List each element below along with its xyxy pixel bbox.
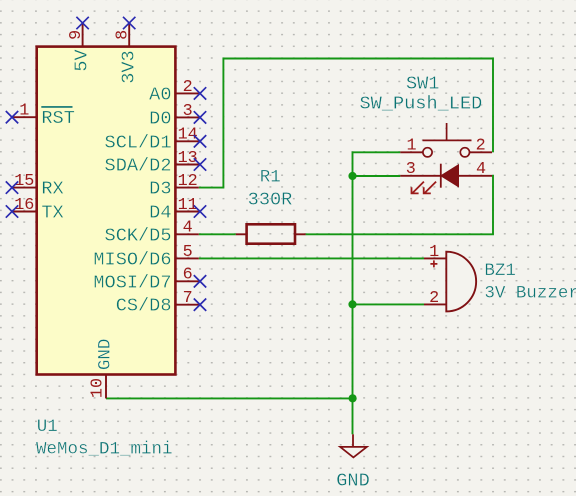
pin 14 lead [175,140,200,142]
pin 2 A0 (right side) [149,78,206,106]
pin 13 lead [175,164,200,166]
pin 6 MOSI/D7 (right side) [93,266,206,294]
svg-text:D3: D3 [149,179,171,200]
wire vertical bus from LED pin3 row down to buzzer pin2 row [352,176,354,304]
svg-text:5V: 5V [72,49,93,72]
pin 9 5V (top side) [67,17,93,72]
svg-text:9: 9 [67,30,86,40]
svg-text:6: 6 [183,266,193,285]
wire vertical bus buzzer row down to GND row [352,304,354,398]
svg-text:SW1: SW1 [406,73,439,94]
svg-text:CS/D8: CS/D8 [116,296,172,317]
svg-text:D4: D4 [149,203,171,224]
svg-text:2: 2 [183,78,193,97]
svg-text:MOSI/D7: MOSI/D7 [93,272,171,293]
ground symbol [340,434,367,457]
pin 15 RX (left side) [6,172,64,200]
IC U1 WeMos_D1_mini body [37,47,176,375]
wire junction B to buzzer pin 2 [353,303,425,305]
no-connect X on pin 1 [6,111,18,123]
svg-text:2: 2 [429,289,439,308]
no-connect X on pin 7 [194,299,206,311]
svg-text:GND: GND [96,339,116,371]
pin 3 D0 (right side) [149,102,206,130]
pin 15 lead [12,187,37,189]
wire U1 GND pin 10 to junction C [106,397,353,399]
svg-text:1: 1 [429,243,439,262]
svg-text:3V3: 3V3 [118,50,139,83]
svg-text:D0: D0 [149,108,171,129]
junction A at (352.5,176) [348,172,356,180]
pin 4 SCK/D5 (right side) [105,219,199,247]
svg-text:4: 4 [183,219,193,238]
no-connect X on pin 2 [194,87,206,99]
pin 3 lead [175,116,200,118]
wire junction A to LED pin 3 [353,175,401,177]
svg-text:WeMos_D1_mini: WeMos_D1_mini [36,440,173,460]
pin 5 lead [175,257,198,259]
wire net /D3: pin D3 right, up, across top, down to SW1 pin 2 [199,59,493,188]
pin 6 lead [175,280,200,282]
wire SW1 pin1 to vertical bus at x=352.5 [353,152,401,176]
svg-text:RX: RX [41,179,63,200]
pin 5 MISO/D6 (right side) [93,243,198,271]
svg-text:A0: A0 [149,84,171,105]
pin 2 lead [175,92,200,94]
no-connect X on pin 14 [194,135,206,147]
no-connect X on pin 11 [194,205,206,217]
wire SCK/D5 to R1 left lead [199,233,236,235]
pin 4 lead [175,233,198,235]
svg-text:SCK/D5: SCK/D5 [105,225,172,246]
pin 7 CS/D8 (right side) [116,289,206,317]
svg-text:10: 10 [88,378,107,398]
svg-text:7: 7 [183,289,193,308]
svg-text:BZ1: BZ1 [484,261,516,281]
svg-text:8: 8 [114,30,133,40]
RST overbar [41,106,72,108]
buzzer plus mark [430,260,437,267]
pin 13 SDA/D2 (right side) [105,149,207,177]
pin 11 D4 (right side) [149,196,206,224]
no-connect X on pin 15 [6,181,18,193]
switch SW1 contact circles and actuator [400,123,492,157]
no-connect X on pin 16 [6,205,18,217]
pin 12 D3 (right side) [149,172,199,200]
buzzer BZ1 body [424,252,476,312]
pin 12 lead [175,187,198,189]
svg-text:2: 2 [476,137,486,156]
pin 16 TX (left side) [6,196,64,224]
svg-text:5: 5 [183,243,193,262]
wire junction C down to GND symbol [352,398,354,434]
svg-text:R1: R1 [260,167,281,187]
svg-text:RST: RST [41,108,74,129]
pin 14 SCL/D1 (right side) [105,126,207,154]
svg-text:TX: TX [41,203,63,224]
svg-text:12: 12 [178,172,198,191]
LED emission arrows [412,182,437,194]
no-connect X on pin 13 [194,158,206,170]
svg-text:1: 1 [407,137,417,156]
svg-text:3: 3 [183,102,193,121]
svg-text:1: 1 [19,102,29,121]
no-connect X on pin 3 [194,111,206,123]
svg-text:SW_Push_LED: SW_Push_LED [360,93,483,114]
junction C at (352.6,398.3) [349,394,357,402]
svg-text:U1: U1 [37,417,58,437]
wire LED pin 4 right, down, left to R1 right lead [306,176,493,235]
no-connect X on pin 6 [194,275,206,287]
svg-text:4: 4 [476,160,486,179]
resistor R1 body [236,224,306,243]
pin 11 lead [175,211,200,213]
pin 1 RST (left side) [6,102,75,130]
pin 16 lead [12,211,37,213]
svg-text:SDA/D2: SDA/D2 [105,156,172,177]
svg-text:MISO/D6: MISO/D6 [93,249,171,270]
svg-text:3: 3 [406,160,416,179]
pin 10 GND (bottom side) [88,339,115,399]
pin 1 lead [12,116,37,118]
LED inside SW1 (pins 3-4) [400,164,492,188]
wire MISO/D6 to buzzer pin 1 [199,257,424,259]
junction B at (352.5,304.4) [348,300,356,308]
svg-text:3V Buzzer: 3V Buzzer [484,284,576,304]
svg-text:GND: GND [336,471,369,492]
pin 7 lead [175,304,200,306]
svg-text:330R: 330R [248,189,293,210]
pin 8 3V3 (top side) [114,17,140,84]
svg-text:SCL/D1: SCL/D1 [105,132,172,153]
